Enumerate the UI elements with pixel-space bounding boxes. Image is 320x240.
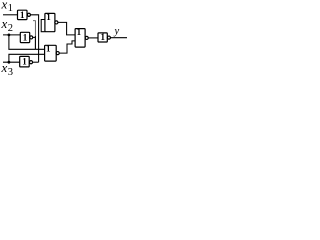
inverter U1 bubble — [27, 13, 30, 16]
wire G3 output horizontal — [33, 61, 39, 63]
wire G1 output down long vertical — [31, 15, 39, 62]
gate U5 bubble — [56, 52, 59, 55]
node dot x3 branch — [7, 61, 10, 64]
svg-text:2: 2 — [8, 23, 13, 34]
wire x2 input — [3, 34, 20, 36]
inverter U3 bubble — [29, 61, 32, 64]
gate U4 box — [45, 13, 55, 31]
svg-text:x: x — [1, 0, 8, 11]
wire x2 branch to G5 line1 — [9, 35, 45, 49]
wire faint hook to G2 vertical — [33, 21, 35, 50]
svg-text:1: 1 — [46, 12, 51, 22]
wire G6 output to G7 — [88, 37, 98, 39]
gate U6 box — [75, 29, 85, 47]
svg-text:x: x — [1, 16, 8, 31]
inverter U2 box — [20, 32, 29, 42]
gate U6 bubble — [85, 36, 88, 39]
wire x3 branch to G5 line2 — [9, 54, 45, 62]
wire x1 input — [3, 14, 18, 16]
wire G5 output jog to G6 input 2 — [59, 41, 75, 53]
svg-text:1: 1 — [22, 57, 27, 67]
inverter U1 box — [18, 10, 28, 19]
gate U7 bubble — [107, 36, 110, 39]
wire G2 output stub — [33, 36, 36, 38]
wire G4 input stub top — [41, 20, 45, 32]
wire G2 vertical main part — [34, 36, 36, 49]
svg-text:1: 1 — [23, 32, 28, 42]
gate U4 bubble — [55, 21, 58, 24]
svg-text:1: 1 — [46, 43, 51, 53]
svg-text:x: x — [1, 60, 8, 75]
inverter U2 bubble — [30, 36, 33, 39]
gate U5 box — [45, 45, 57, 61]
svg-text:1: 1 — [77, 27, 82, 37]
svg-text:1: 1 — [8, 3, 13, 14]
node dot x2 branch — [7, 34, 10, 37]
wire x3 input — [3, 61, 20, 63]
svg-text:1: 1 — [101, 32, 106, 42]
wire G4 output to G6 input 1 — [58, 22, 75, 35]
svg-text:1: 1 — [20, 10, 25, 20]
wire G7 output y — [110, 37, 127, 39]
inverter U3 box — [20, 56, 30, 67]
svg-text:3: 3 — [8, 67, 13, 78]
svg-text:y: y — [114, 26, 120, 37]
gate U7 box — [98, 33, 107, 42]
